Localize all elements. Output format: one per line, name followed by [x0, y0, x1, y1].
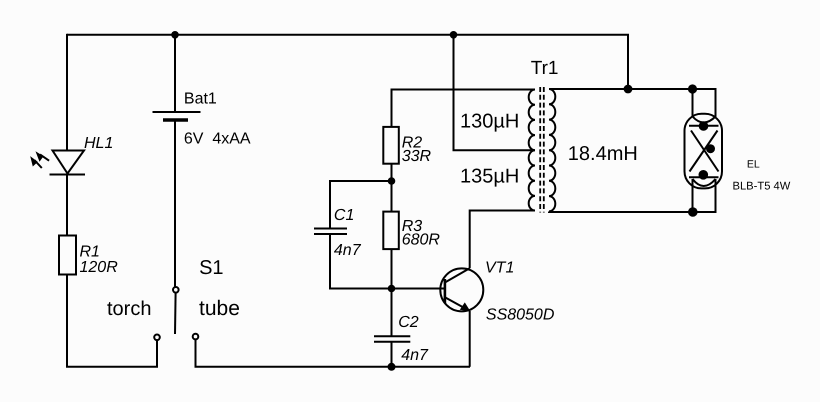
wire R1 to bottom left [67, 275, 157, 367]
switch S1 common contact [173, 287, 179, 293]
wire C1 top lead [330, 181, 392, 228]
resistor R3 [383, 212, 399, 250]
svg-text:120R: 120R [80, 259, 119, 276]
node R3 C2 base junction [388, 285, 396, 293]
wire battery branch upper [174, 35, 176, 111]
svg-text:HL1: HL1 [84, 135, 113, 152]
switch S1 tube contact [193, 334, 199, 340]
svg-text:680R: 680R [402, 232, 441, 249]
resistor R2 [383, 127, 399, 164]
svg-text:Bat1: Bat1 [184, 91, 217, 108]
svg-text:Tr1: Tr1 [531, 58, 559, 79]
svg-text:C2: C2 [398, 314, 419, 331]
node lamp left pin / bottom wire [688, 207, 698, 217]
wire C1 bottom lead [330, 235, 392, 289]
wire R3 to C2 [391, 249, 393, 336]
svg-text:33R: 33R [402, 148, 432, 165]
transformer Tr1 secondary winding [549, 89, 555, 211]
wire tube contact to bottom rail [196, 340, 471, 367]
svg-text:tube: tube [199, 297, 240, 320]
wire lamp left pin bottom [692, 179, 694, 212]
transformer Tr1 core [540, 87, 544, 213]
node C2 bottom rail junction [388, 363, 396, 371]
wire battery to switch [174, 122, 176, 288]
switch S1 lever [174, 293, 177, 334]
svg-text:C1: C1 [334, 207, 354, 224]
wire left branch upper [66, 34, 68, 151]
wire C2 bottom lead [391, 342, 393, 367]
node battery / top rail [171, 31, 179, 39]
svg-text:135µH: 135µH [460, 165, 519, 187]
wire emitter lead [469, 311, 471, 367]
resistor R1 [59, 236, 76, 275]
node center tap / top rail [450, 31, 458, 39]
wire secondary bottom lead [549, 179, 716, 212]
lamp EL [685, 114, 723, 189]
svg-text:18.4mH: 18.4mH [568, 143, 638, 165]
switch S1 torch contact [154, 335, 160, 341]
node lamp left pin / top wire [688, 84, 697, 93]
transformer Tr1 primary winding [529, 90, 535, 211]
capacitor C2 [374, 336, 410, 341]
svg-text:VT1: VT1 [485, 259, 514, 276]
svg-text:4n7: 4n7 [334, 242, 362, 259]
svg-text:SS8050D: SS8050D [486, 307, 555, 324]
node top rail / lamp wire [624, 85, 633, 94]
wire R2 to R3 [391, 164, 393, 212]
svg-text:S1: S1 [199, 257, 223, 279]
svg-text:6V 4xAA: 6V 4xAA [184, 131, 251, 148]
wire secondary top lead [549, 89, 716, 117]
wire top rail [67, 35, 628, 89]
wire center tap lead [454, 35, 536, 151]
wire primary top lead [392, 90, 536, 129]
svg-text:130µH: 130µH [460, 111, 519, 133]
wire base lead [392, 288, 445, 290]
svg-text:R1: R1 [80, 244, 100, 261]
battery Bat1 [153, 112, 201, 120]
wire lamp left pin top [692, 89, 694, 117]
LED HL1 [30, 151, 85, 175]
node R2 R3 C1 junction [388, 177, 396, 185]
svg-text:torch: torch [107, 298, 151, 320]
svg-text:4n7: 4n7 [401, 347, 429, 364]
svg-text:EL: EL [747, 158, 760, 170]
wire LED to R1 [66, 175, 68, 237]
svg-text:BLB-T5 4W: BLB-T5 4W [733, 180, 791, 192]
transistor VT1 [440, 268, 483, 311]
capacitor C1 [314, 229, 347, 235]
wire collector lead [470, 211, 535, 269]
